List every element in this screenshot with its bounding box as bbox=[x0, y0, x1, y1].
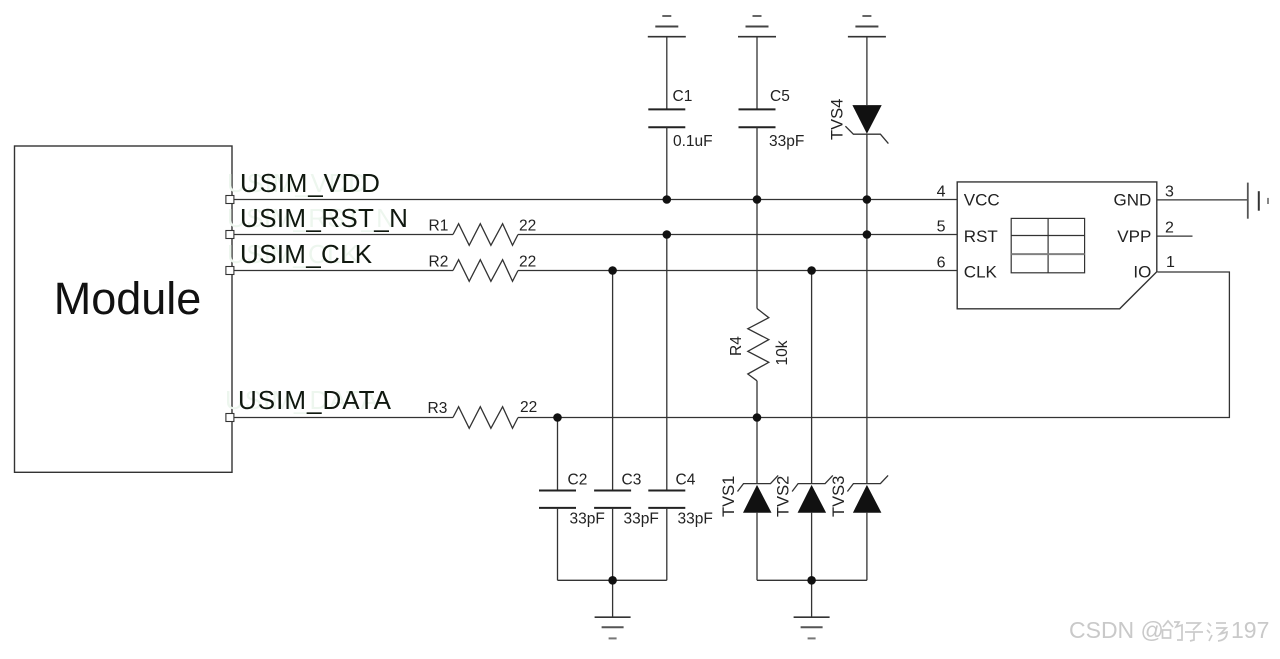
svg-text:TVS1: TVS1 bbox=[720, 476, 738, 517]
svg-text:GND: GND bbox=[1114, 190, 1152, 209]
capacitor C3 plates bbox=[594, 491, 631, 508]
wire USIM_DATA left segment bbox=[232, 417, 453, 419]
svg-text:CLK: CLK bbox=[964, 263, 998, 282]
svg-text:TVS2: TVS2 bbox=[775, 476, 793, 517]
svg-text:R3: R3 bbox=[428, 400, 448, 417]
svg-text:R2: R2 bbox=[429, 254, 449, 271]
tvs diode TVS1 cathode bar with hooks bbox=[738, 475, 779, 491]
wire right ground stem bbox=[811, 580, 813, 617]
ground symbol right bbox=[794, 617, 830, 638]
wire TVS2 stem from CLK bbox=[811, 271, 813, 485]
svg-text:22: 22 bbox=[519, 254, 536, 271]
svg-text:C3: C3 bbox=[622, 472, 642, 489]
wire USIM_CLK left segment bbox=[232, 270, 453, 272]
svg-text:USIM_RST_N: USIM_RST_N bbox=[240, 203, 408, 233]
svg-text:R4: R4 bbox=[728, 336, 745, 356]
wire TVS2 bottom stem bbox=[811, 513, 813, 581]
power symbol inverted ground top C1 bbox=[648, 16, 686, 37]
junction VDD-C5-R4 bbox=[753, 195, 762, 204]
tvs diode TVS3 cathode bar with hooks bbox=[847, 475, 888, 491]
power symbol inverted ground top TVS4 bbox=[848, 16, 886, 37]
sim contact pad grid gray divider bbox=[1011, 253, 1084, 255]
resistor R4 top stem bbox=[756, 200, 758, 309]
svg-text:C2: C2 bbox=[568, 472, 588, 489]
sim contact pad grid bbox=[1011, 218, 1084, 272]
wire left ground stem bbox=[612, 580, 614, 617]
svg-text:33pF: 33pF bbox=[678, 511, 713, 528]
capacitor C1 plates bbox=[648, 109, 685, 127]
wire TVS1 stem from DATA bbox=[756, 418, 758, 485]
watermark chinese char ge bbox=[1163, 621, 1183, 640]
resistor R3 zigzag bbox=[453, 407, 518, 429]
tvs diode TVS1 triangle bbox=[743, 485, 772, 513]
svg-text:USIM_DATA: USIM_DATA bbox=[238, 385, 392, 415]
wire USIM_DATA right segment to IO riser bbox=[518, 272, 1229, 418]
wire C5 bottom stem bbox=[756, 127, 758, 199]
junction VDD-TVS4 bbox=[863, 195, 872, 204]
resistor R1 zigzag bbox=[453, 224, 518, 246]
svg-text:RST: RST bbox=[964, 227, 998, 246]
wire GND pin to ground bbox=[1157, 199, 1248, 201]
svg-text:VCC: VCC bbox=[964, 190, 1000, 209]
svg-text:TVS4: TVS4 bbox=[829, 99, 847, 140]
capacitor C2 plates bbox=[539, 491, 576, 508]
pin square module RST bbox=[226, 231, 234, 239]
svg-text:33pF: 33pF bbox=[769, 133, 804, 150]
svg-text:CSDN @: CSDN @ bbox=[1069, 617, 1164, 643]
wire C3 bottom stem bbox=[612, 508, 614, 580]
pin square module VDD bbox=[226, 196, 234, 204]
module box U-Module bbox=[15, 146, 233, 472]
wire VPP stub bbox=[1157, 235, 1193, 237]
svg-text:22: 22 bbox=[520, 399, 537, 416]
svg-text:3: 3 bbox=[1165, 184, 1174, 201]
svg-text:22: 22 bbox=[519, 218, 536, 235]
junction VDD-C1 bbox=[663, 195, 672, 204]
svg-text:1: 1 bbox=[1166, 254, 1175, 271]
junction DATA-C2 bbox=[553, 413, 562, 422]
svg-text:4: 4 bbox=[937, 184, 946, 201]
svg-text:10k: 10k bbox=[774, 340, 791, 365]
pin square module DATA bbox=[226, 414, 234, 422]
sim connector J1 outline bbox=[957, 182, 1157, 309]
svg-text:0.1uF: 0.1uF bbox=[673, 133, 713, 150]
tvs diode TVS2 triangle bbox=[798, 485, 827, 513]
tvs diode TVS3 triangle bbox=[853, 485, 882, 513]
svg-text:R1: R1 bbox=[429, 218, 449, 235]
junction DATA-R4-TVS1 bbox=[753, 413, 762, 422]
wire TVS3 bottom stem bbox=[866, 513, 868, 581]
wire C5 top stem bbox=[756, 37, 758, 110]
svg-text:5: 5 bbox=[937, 219, 946, 236]
wire USIM_RST_N right segment bbox=[518, 234, 957, 236]
svg-text:C1: C1 bbox=[673, 88, 693, 105]
wire C3 stem from CLK bbox=[612, 271, 614, 491]
svg-text:USIM_CLK: USIM_CLK bbox=[240, 239, 373, 269]
svg-text:USIM_VDD: USIM_VDD bbox=[240, 168, 381, 198]
svg-text:33pF: 33pF bbox=[570, 511, 605, 528]
capacitor C4 plates bbox=[648, 491, 685, 508]
junction right ground bus bbox=[807, 576, 816, 585]
watermark chinese char tang bbox=[1207, 623, 1227, 641]
pin square module CLK bbox=[226, 267, 234, 275]
wire C2 bottom stem bbox=[557, 508, 559, 580]
svg-text:C4: C4 bbox=[676, 472, 696, 489]
svg-text:2: 2 bbox=[1165, 220, 1174, 237]
tvs diode TVS2 cathode bar with hooks bbox=[792, 475, 833, 491]
junction CLK-TVS2 bbox=[807, 266, 816, 275]
tvs diode TVS4 cathode bar with hooks bbox=[845, 126, 888, 143]
ground symbol rotated right bbox=[1248, 183, 1268, 219]
wire USIM_RST_N left segment bbox=[232, 234, 453, 236]
junction RST-C4 bbox=[663, 230, 672, 239]
wire USIM_CLK right segment bbox=[518, 270, 957, 272]
svg-text:6: 6 bbox=[937, 255, 946, 272]
wire USIM_VDD bbox=[232, 199, 957, 201]
tvs diode TVS4 triangle bbox=[852, 105, 881, 134]
junction left ground bus bbox=[608, 576, 617, 585]
wire TVS4 to VDD and down to TVS3 bbox=[866, 134, 868, 484]
svg-text:IO: IO bbox=[1133, 263, 1151, 282]
svg-text:VPP: VPP bbox=[1117, 227, 1151, 246]
resistor R2 zigzag bbox=[453, 260, 518, 282]
wire left ground bus bbox=[558, 579, 667, 581]
wire C4 stem from RST bbox=[666, 235, 668, 491]
wire right ground bus bbox=[757, 579, 867, 581]
wire TVS1 bottom stem bbox=[756, 513, 758, 581]
ground symbol left bbox=[595, 617, 631, 638]
capacitor C5 plates bbox=[739, 109, 776, 127]
svg-text:33pF: 33pF bbox=[624, 511, 659, 528]
junction RST-TVS3 bbox=[863, 230, 872, 239]
svg-text:TVS3: TVS3 bbox=[830, 476, 848, 517]
svg-text:197: 197 bbox=[1231, 617, 1269, 643]
resistor R4 zigzag bbox=[748, 309, 769, 381]
power symbol inverted ground top C5 bbox=[738, 16, 776, 37]
wire C1 top stem bbox=[666, 37, 668, 110]
wire C4 bottom stem bbox=[666, 508, 668, 580]
svg-text:C5: C5 bbox=[770, 88, 790, 105]
svg-text:Module: Module bbox=[54, 273, 202, 324]
watermark chinese char zi bbox=[1185, 623, 1203, 641]
wire TVS4 top stem bbox=[866, 37, 868, 105]
wire C1 bottom stem bbox=[666, 127, 668, 199]
junction CLK-C3 bbox=[608, 266, 617, 275]
resistor R4 bottom stem bbox=[756, 381, 758, 418]
wire C2 stem from DATA bbox=[557, 418, 559, 491]
